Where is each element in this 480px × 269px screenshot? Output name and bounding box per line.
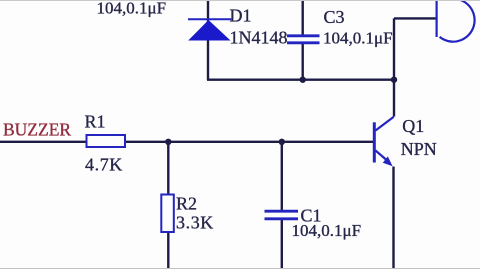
svg-text:NPN: NPN [401,139,437,159]
svg-text:D1: D1 [230,6,252,26]
svg-text:104,0.1μF: 104,0.1μF [323,29,393,48]
svg-text:3.3K: 3.3K [176,212,214,232]
svg-text:C3: C3 [324,7,345,27]
svg-text:104,0.1μF: 104,0.1μF [97,0,167,17]
svg-text:4.7K: 4.7K [85,154,123,174]
svg-text:R2: R2 [176,193,197,213]
svg-text:1N4148: 1N4148 [230,28,288,48]
svg-text:BUZZER: BUZZER [3,119,71,139]
svg-text:104,0.1μF: 104,0.1μF [292,221,362,240]
svg-text:Q1: Q1 [402,116,424,136]
svg-text:R1: R1 [85,112,106,132]
